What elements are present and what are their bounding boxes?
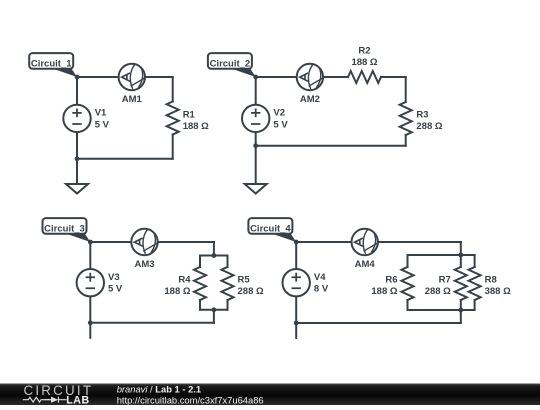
svg-text:R6: R6 <box>385 274 397 285</box>
svg-text:288 Ω: 288 Ω <box>425 286 451 297</box>
svg-text:R3: R3 <box>416 109 428 120</box>
svg-text:R1: R1 <box>183 109 196 120</box>
svg-text:188 Ω: 188 Ω <box>183 121 209 132</box>
svg-text:388 Ω: 388 Ω <box>485 286 511 297</box>
svg-text:188 Ω: 188 Ω <box>351 57 377 68</box>
svg-text:LAB: LAB <box>66 394 90 405</box>
svg-text:R2: R2 <box>358 46 370 57</box>
svg-text:5 V: 5 V <box>273 119 288 130</box>
svg-text:R7: R7 <box>439 274 451 285</box>
svg-text:R5: R5 <box>238 274 251 285</box>
svg-text:Circuit_4: Circuit_4 <box>250 223 291 234</box>
svg-text:branavi / Lab 1 - 2.1: branavi / Lab 1 - 2.1 <box>117 383 201 394</box>
svg-text:R4: R4 <box>178 274 191 285</box>
svg-text:AM1: AM1 <box>122 94 143 105</box>
svg-text:Circuit_3: Circuit_3 <box>44 223 85 234</box>
svg-text:5 V: 5 V <box>95 119 110 130</box>
svg-text:V2: V2 <box>273 108 285 119</box>
svg-text:288 Ω: 288 Ω <box>416 121 442 132</box>
svg-text:V4: V4 <box>314 272 326 283</box>
svg-text:5 V: 5 V <box>108 284 123 295</box>
svg-text:V1: V1 <box>95 108 107 119</box>
svg-text:http://circuitlab.com/c3xf7x7u: http://circuitlab.com/c3xf7x7u64a86 <box>117 394 264 405</box>
svg-text:V3: V3 <box>108 272 120 283</box>
svg-text:Circuit_2: Circuit_2 <box>210 58 251 69</box>
svg-text:AM4: AM4 <box>355 259 376 270</box>
svg-text:AM2: AM2 <box>300 94 320 105</box>
svg-text:288 Ω: 288 Ω <box>238 286 264 297</box>
svg-text:8 V: 8 V <box>314 284 329 295</box>
svg-text:Circuit_1: Circuit_1 <box>31 58 72 69</box>
svg-text:R8: R8 <box>485 274 497 285</box>
svg-text:188 Ω: 188 Ω <box>371 286 397 297</box>
svg-text:AM3: AM3 <box>134 259 154 270</box>
svg-text:188 Ω: 188 Ω <box>164 286 190 297</box>
